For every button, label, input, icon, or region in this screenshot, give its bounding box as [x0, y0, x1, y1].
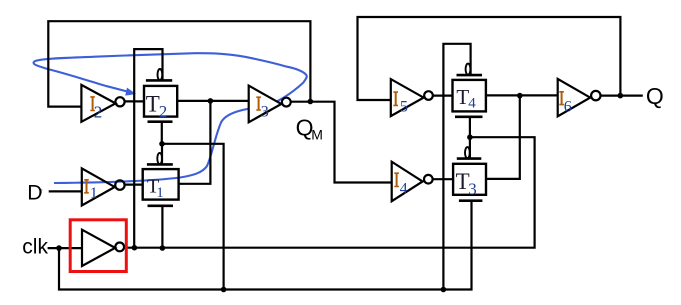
node: T1 output on master wire	[208, 98, 214, 104]
transmission gate T2	[144, 69, 177, 122]
wire: I1 output to T1	[125, 184, 143, 186]
red highlight box around clock inverter	[70, 220, 126, 272]
wire: T1 NMOS gate to clkb rail	[161, 206, 163, 248]
black wires	[48, 17, 643, 290]
label I6	[559, 91, 571, 116]
node: T1 NMOS gate on clkb	[160, 245, 166, 251]
node: T4 bracket on clk rail	[441, 287, 447, 293]
wire: T3 output up to slave node	[486, 96, 520, 179]
wire: T2 NMOS gate to clk rail	[162, 122, 224, 290]
svg-text:M: M	[311, 127, 323, 143]
wire: T4 NMOS gate down to T3 PMOS gate	[469, 117, 471, 159]
clock inverter (highlighted)	[82, 230, 124, 266]
svg-text:2: 2	[159, 102, 168, 121]
svg-text:6: 6	[564, 99, 572, 116]
inverter I2	[81, 85, 124, 122]
svg-text:3: 3	[468, 180, 477, 199]
wire: clk input	[48, 247, 82, 249]
inverter I3	[249, 86, 291, 123]
svg-text:4: 4	[468, 96, 476, 112]
node: QM	[308, 99, 314, 105]
label T1	[147, 176, 164, 201]
wire: T1 output up to master node	[179, 101, 211, 184]
wire: T1 PMOS gate stub	[161, 144, 163, 165]
wire: I6 output to Q	[601, 94, 643, 96]
inverter I4	[392, 162, 433, 202]
label I3	[256, 96, 269, 120]
node: slave latch node	[517, 93, 523, 99]
wire: I4 output to T3	[433, 178, 453, 180]
wire: I3 output to QM node and down to I4 input	[291, 102, 392, 183]
cyan stub near D	[39, 189, 42, 194]
wire: T2 output to I3 input	[177, 100, 249, 102]
svg-text:clk: clk	[22, 235, 48, 258]
svg-text:1: 1	[90, 185, 98, 202]
wire: clkb up over T2 bracket to PMOS gate	[134, 49, 162, 248]
wire: slave feedback Q-top-I5 input	[358, 17, 621, 100]
wire: clk inverter output to clkb rail	[124, 137, 535, 248]
node: T2 gate line on clk rail	[221, 287, 227, 293]
wire: T4 output to I6 input	[486, 94, 558, 96]
inverter I6	[558, 79, 601, 116]
svg-text:D: D	[27, 182, 42, 205]
wire: master feedback QM-top-I2 input	[48, 21, 310, 106]
label I5	[393, 91, 408, 115]
wire: I2 output to T2	[125, 100, 144, 102]
svg-text:T: T	[146, 91, 160, 116]
transmission gate T1	[143, 153, 179, 206]
node: clk split	[56, 245, 62, 251]
svg-text:Q: Q	[646, 83, 664, 109]
wire: clk bottom rail to T3 bottom gate	[59, 201, 472, 290]
node: T2 NMOS / T1 PMOS gate tie	[159, 141, 165, 147]
svg-text:1: 1	[156, 185, 164, 201]
label T2	[146, 91, 168, 121]
label I1	[84, 179, 98, 202]
wire: D input	[49, 190, 82, 192]
blue arrowhead pointing at T2 input node	[125, 88, 136, 96]
blue annotation loop arrow (feedback path)	[34, 53, 307, 183]
label T4	[456, 85, 476, 112]
svg-text:5: 5	[400, 98, 408, 115]
svg-text:4: 4	[400, 181, 408, 198]
wire: I5 output to T4	[433, 94, 453, 96]
node: Q	[618, 93, 624, 99]
node: T4 NMOS / T3 PMOS gate tie	[467, 134, 473, 140]
inverter I5	[391, 79, 433, 116]
wire: clk rail up over T4 bracket to PMOS gate	[443, 44, 470, 290]
label I4	[394, 172, 407, 197]
transmission gate T4	[453, 64, 486, 117]
node: clkb at inverter output	[132, 245, 138, 251]
transmission gate T3	[453, 147, 486, 201]
label T3	[456, 169, 477, 199]
svg-text:2: 2	[94, 103, 103, 122]
label I2	[90, 96, 102, 122]
svg-text:3: 3	[261, 104, 269, 121]
inverter I1	[82, 168, 125, 205]
